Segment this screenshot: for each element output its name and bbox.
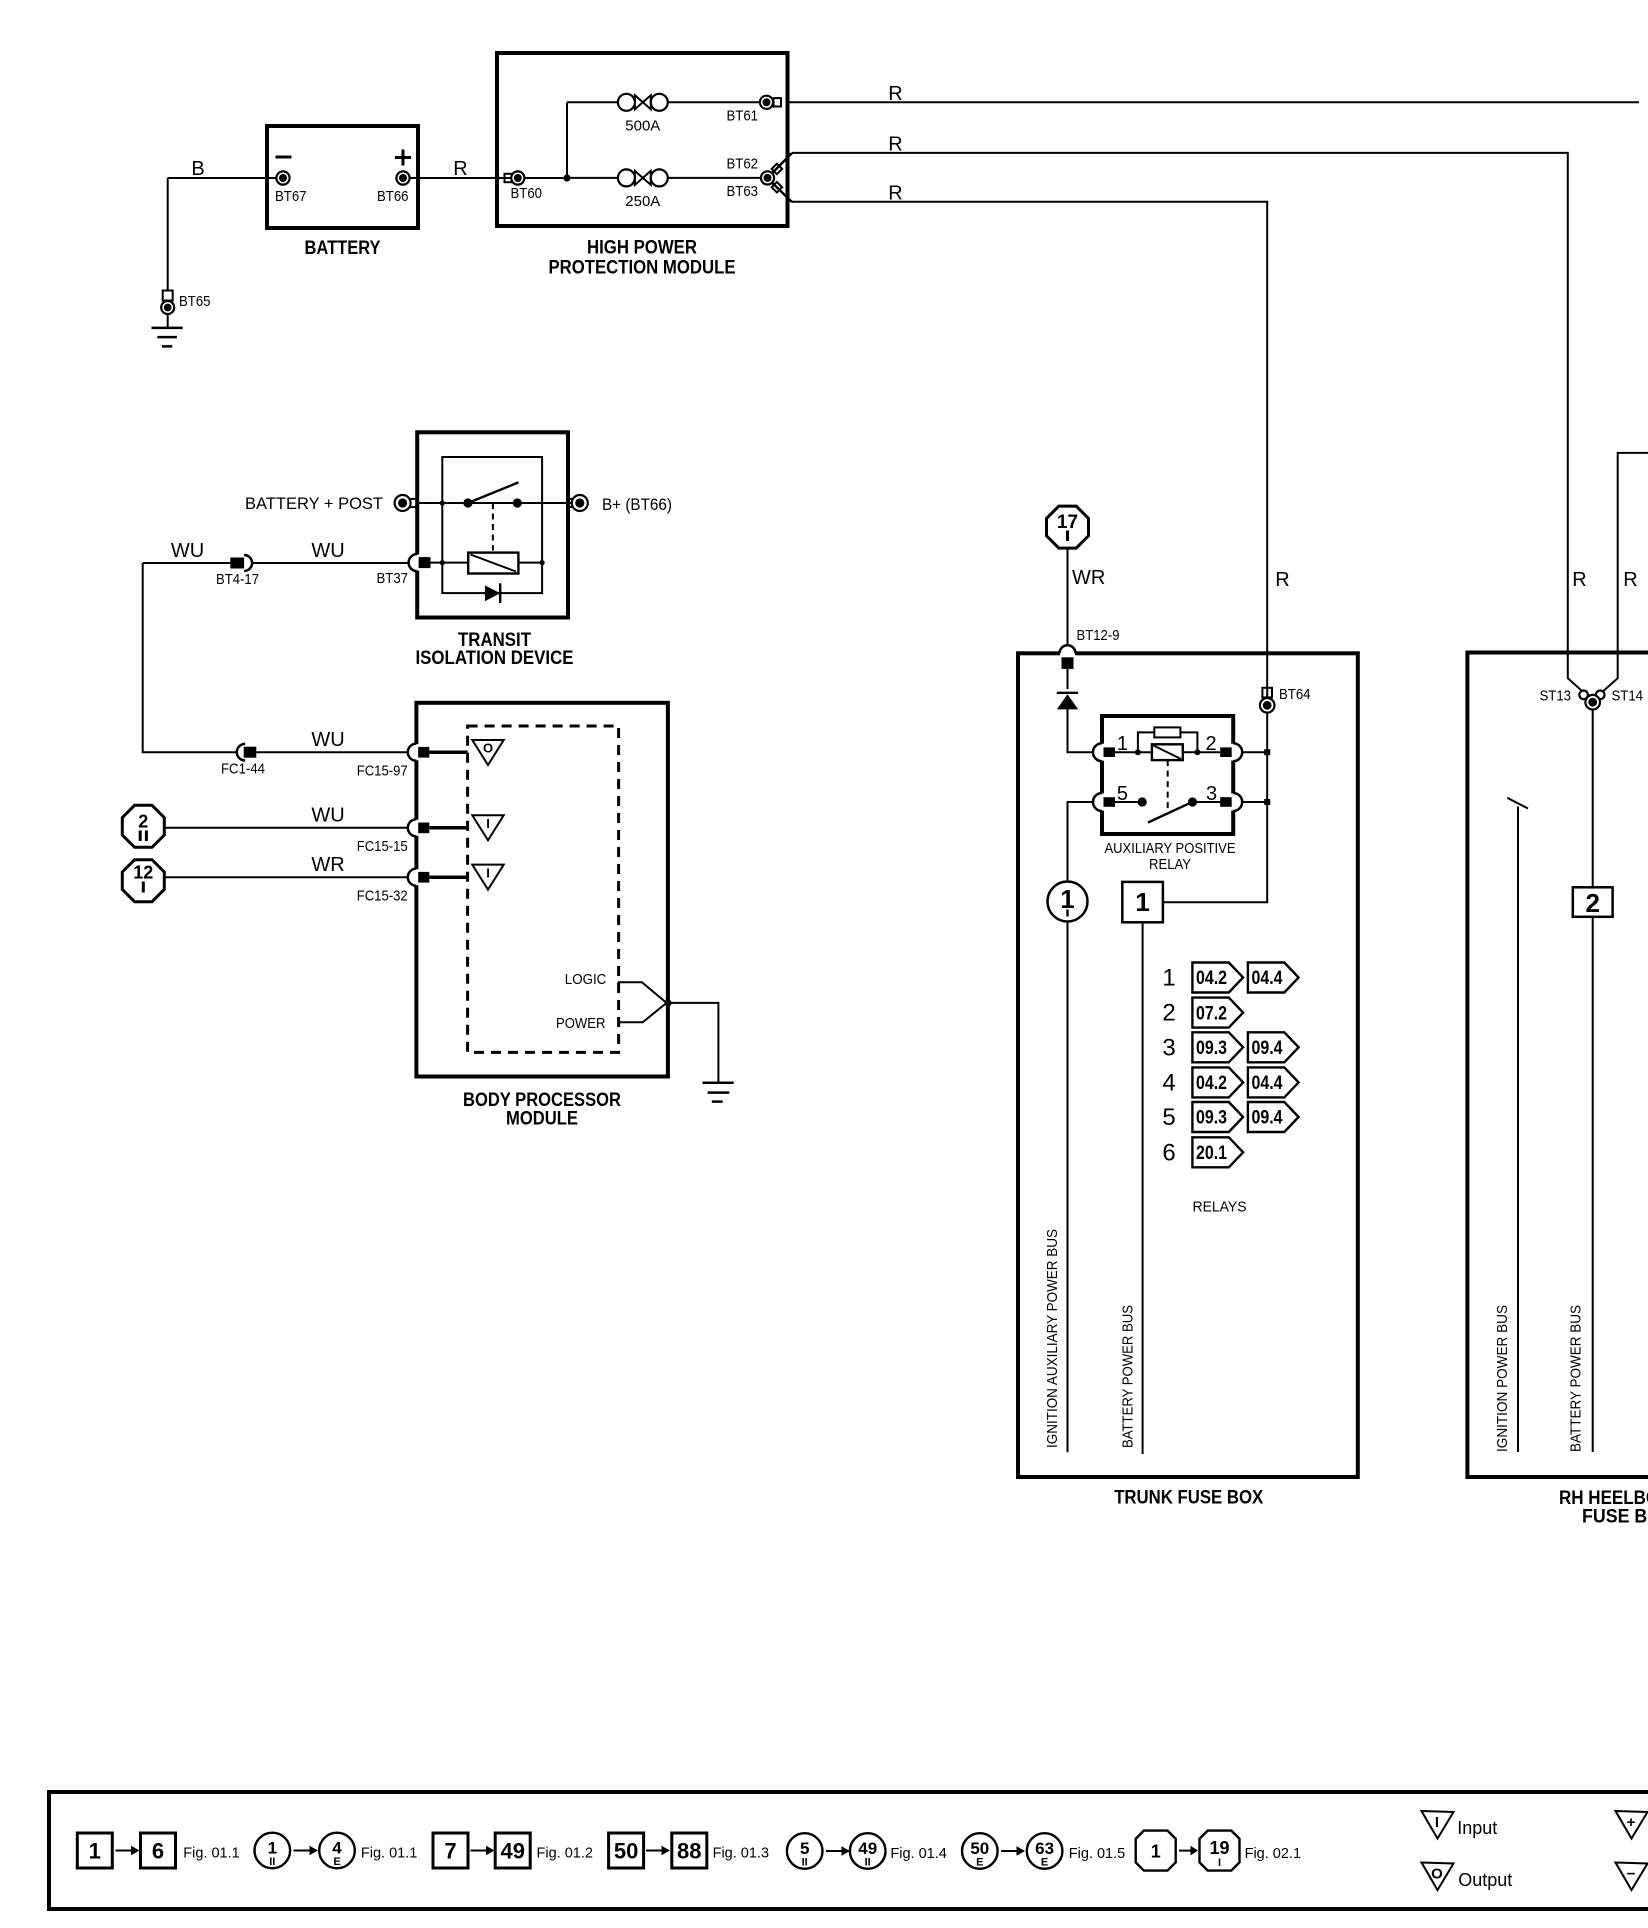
svg-text:R: R: [888, 134, 902, 156]
wire BT63 diagonal: [772, 183, 792, 202]
pin 5: [1093, 783, 1128, 811]
svg-text:WR: WR: [1072, 567, 1105, 589]
terminal BT66: [377, 171, 410, 205]
wire stub to input symbol: [429, 826, 467, 830]
svg-text:3: 3: [1162, 1034, 1175, 1061]
battery plus symbol: [395, 150, 411, 166]
dashed actuator link: [1167, 760, 1169, 810]
diode: [485, 583, 500, 603]
legend square 6: [141, 1833, 176, 1868]
svg-text:20.1: 20.1: [1196, 1143, 1227, 1164]
pin 1: [1093, 733, 1128, 761]
arrow: [646, 1846, 670, 1856]
wire BT60 to junction: [525, 177, 564, 179]
terminal BT60: [505, 171, 543, 202]
label ignition power bus: [1494, 1305, 1511, 1452]
node junction: [1264, 799, 1270, 805]
svg-text:63: 63: [1035, 1839, 1054, 1858]
wire stub to input symbol: [429, 875, 467, 879]
svg-text:BATTERY POWER BUS: BATTERY POWER BUS: [1120, 1305, 1137, 1448]
label Fig. 01.5: [1069, 1846, 1125, 1862]
body processor module box: [416, 703, 668, 1077]
svg-text:250A: 250A: [625, 193, 660, 210]
input symbol I: [472, 865, 503, 890]
svg-text:FC15-32: FC15-32: [357, 888, 408, 905]
svg-text:4: 4: [332, 1839, 342, 1858]
label TRANSIT ISOLATION DEVICE: [416, 630, 574, 669]
svg-text:RELAY: RELAY: [1149, 856, 1191, 873]
switch blade: [468, 482, 519, 503]
legend output symbol: [1422, 1863, 1513, 1891]
terminal battery post left: [395, 495, 418, 511]
svg-text:19: 19: [1209, 1838, 1229, 1858]
svg-text:I: I: [1218, 1857, 1221, 1869]
output symbol O: [472, 740, 503, 765]
svg-text:II: II: [865, 1857, 871, 1869]
legend positive symbol: [1616, 1811, 1648, 1839]
terminal B+ (BT66): [568, 495, 672, 514]
node: [1135, 749, 1141, 755]
svg-text:Fig. 01.2: Fig. 01.2: [537, 1846, 593, 1862]
svg-text:R: R: [453, 158, 467, 180]
wire battery power bus RH: [1592, 917, 1594, 1452]
legend circle 1 II: [254, 1833, 290, 1869]
pin 2: [1205, 733, 1242, 761]
node 12 octagon: [122, 860, 164, 902]
wire WR octagon12 to FC15-32: [164, 876, 407, 878]
svg-text:B+ (BT66): B+ (BT66): [602, 495, 672, 514]
svg-text:04.2: 04.2: [1196, 968, 1227, 989]
svg-text:2: 2: [1162, 1000, 1175, 1027]
svg-text:88: 88: [677, 1839, 701, 1864]
legend circle 63 E: [1027, 1833, 1063, 1869]
wire WR octagon17 down: [1067, 548, 1069, 646]
svg-text:BT67: BT67: [275, 188, 307, 205]
legend box: [49, 1792, 1648, 1909]
switch contacts: [463, 498, 522, 507]
svg-text:R: R: [1572, 569, 1586, 591]
wire diode to relay pin 1: [1068, 709, 1094, 752]
svg-text:ST13: ST13: [1540, 688, 1572, 705]
connector BT12-9: [1060, 627, 1120, 669]
wire WU to BT4-17: [143, 562, 231, 564]
label battery power bus: [1568, 1305, 1585, 1452]
label ignition auxiliary power bus: [1044, 1229, 1061, 1448]
legend square 1: [77, 1833, 112, 1868]
svg-text:1: 1: [1162, 965, 1175, 992]
wire B battery negative: [168, 177, 276, 179]
legend circle 50 E: [962, 1833, 998, 1869]
diode D: [1057, 693, 1078, 710]
svg-text:BT12-9: BT12-9: [1077, 627, 1120, 644]
connector BT37: [377, 554, 431, 587]
high power protection module box: [497, 53, 788, 226]
label AUXILIARY POSITIVE RELAY: [1105, 840, 1236, 873]
svg-text:5: 5: [800, 1839, 809, 1858]
arrow: [826, 1846, 850, 1856]
svg-text:1: 1: [1151, 1842, 1161, 1862]
wire to ground: [167, 178, 169, 291]
wire ignition power bus RH: [1507, 798, 1528, 1452]
svg-text:6: 6: [1162, 1139, 1175, 1166]
connector BT64: [1260, 686, 1311, 713]
svg-text:FC15-97: FC15-97: [357, 763, 408, 780]
switch contact: [1138, 797, 1147, 806]
svg-text:BT63: BT63: [727, 183, 759, 200]
terminal BT62/BT63: [727, 156, 783, 201]
wire logic stub: [618, 982, 667, 1003]
svg-text:LOGIC: LOGIC: [565, 971, 607, 988]
label BODY PROCESSOR MODULE: [463, 1090, 621, 1130]
wire fuse to BT62/BT63: [668, 177, 761, 179]
inner circuit box: [442, 457, 542, 593]
ground symbol: [152, 328, 183, 347]
fig flag 20.1 row6: [1192, 1137, 1243, 1167]
fuse 500A: [618, 94, 668, 135]
wire WU BT4-17 to BT37: [252, 562, 409, 564]
label Fig. 01.3: [713, 1846, 769, 1862]
wire pin1 to coil: [1115, 751, 1152, 753]
wire pin3 to R bus: [1242, 801, 1267, 803]
wire pin5 to circle 1: [1068, 802, 1094, 882]
svg-text:BT65: BT65: [179, 293, 211, 310]
svg-text:7: 7: [444, 1839, 456, 1864]
svg-text:E: E: [333, 1856, 340, 1868]
svg-text:WR: WR: [311, 854, 344, 876]
svg-text:2: 2: [138, 812, 148, 832]
battery minus symbol: [276, 156, 292, 159]
svg-text:49: 49: [500, 1839, 524, 1864]
label BATTERY: [305, 238, 381, 259]
legend circle 5 II: [787, 1833, 823, 1869]
wire R battery to BT60: [410, 177, 511, 179]
label HIGH POWER PROTECTION MODULE: [549, 238, 736, 279]
fig flag 09.4 row3: [1248, 1032, 1299, 1062]
svg-text:500A: 500A: [625, 118, 660, 135]
svg-text:FC1-44: FC1-44: [221, 761, 265, 778]
fig flag 04.2 row4: [1192, 1067, 1243, 1097]
RH heelboard fuse box: [1467, 653, 1648, 1478]
label Fig. 01.2: [537, 1846, 593, 1862]
svg-text:R: R: [888, 83, 902, 105]
svg-text:WU: WU: [311, 729, 344, 751]
svg-text:B: B: [191, 158, 204, 180]
svg-text:PROTECTION MODULE: PROTECTION MODULE: [549, 258, 736, 279]
label WR: [311, 854, 344, 876]
wire stub to output symbol: [429, 750, 467, 754]
label Fig. 01.4: [890, 1846, 946, 1862]
input symbol I: [472, 815, 503, 840]
switch blade: [1148, 803, 1191, 823]
wire junction to fuse 250A: [571, 177, 618, 179]
node 17 octagon: [1047, 506, 1089, 548]
wire R from BT61: [788, 101, 1640, 103]
node circle 1: [1048, 882, 1088, 922]
svg-text:BATTERY: BATTERY: [305, 238, 381, 259]
svg-text:BT37: BT37: [377, 570, 409, 587]
svg-text:Input: Input: [1457, 1818, 1497, 1838]
svg-text:O: O: [1431, 1866, 1443, 1883]
svg-text:BT61: BT61: [727, 108, 759, 125]
svg-text:+: +: [1627, 1814, 1636, 1831]
label R: [1572, 569, 1586, 591]
label WU: [311, 729, 344, 751]
svg-text:Fig. 01.4: Fig. 01.4: [890, 1846, 946, 1862]
connector BT65: [161, 291, 210, 315]
wire BT65 to ground: [167, 314, 169, 328]
legend square 50: [609, 1833, 644, 1868]
svg-text:1: 1: [1135, 887, 1149, 917]
svg-text:BATTERY + POST: BATTERY + POST: [245, 494, 383, 513]
label WU: [311, 540, 344, 562]
svg-text:WU: WU: [311, 540, 344, 562]
connector FC15-97: [357, 744, 430, 780]
wire coil left: [431, 562, 469, 564]
wire WU FC1-44 to FC15-97: [256, 751, 408, 753]
svg-text:12: 12: [133, 863, 153, 883]
wire WU down to FC1-44: [143, 563, 237, 752]
svg-text:4: 4: [1162, 1069, 1175, 1096]
resistor: [1154, 727, 1180, 737]
splice ST13: [1540, 688, 1588, 705]
arrow: [116, 1846, 140, 1856]
svg-text:WU: WU: [171, 540, 204, 562]
svg-text:POWER: POWER: [556, 1015, 606, 1032]
relay coil: [1152, 744, 1183, 760]
wire coil right: [518, 562, 542, 564]
svg-text:Fig. 02.1: Fig. 02.1: [1245, 1846, 1301, 1862]
svg-text:HIGH POWER: HIGH POWER: [587, 238, 697, 259]
terminal BT61: [727, 96, 782, 125]
label Fig. 01.1: [183, 1846, 239, 1862]
fig flag 09.3 row5: [1192, 1102, 1243, 1132]
legend circle 49 II: [850, 1833, 886, 1869]
svg-text:II: II: [269, 1856, 275, 1868]
wire ignition auxiliary power bus: [1067, 922, 1069, 1453]
svg-text:IGNITION AUXILIARY POWER BUS: IGNITION AUXILIARY POWER BUS: [1044, 1229, 1061, 1448]
fig flag 04.2 row1: [1192, 963, 1243, 993]
legend octagon 19 I: [1200, 1831, 1240, 1871]
splice ST14: [1596, 688, 1643, 705]
svg-text:BT60: BT60: [511, 185, 543, 202]
label R: [453, 158, 467, 180]
arrow: [294, 1846, 319, 1856]
fig flag 07.2 row2: [1192, 998, 1243, 1028]
legend negative symbol: [1616, 1863, 1648, 1891]
legend input symbol: [1422, 1811, 1498, 1839]
svg-text:R: R: [1623, 569, 1637, 591]
connector FC15-32: [357, 869, 430, 905]
label R: [1275, 569, 1289, 591]
terminal box 1: [1122, 882, 1163, 922]
auxiliary positive relay box: [1102, 716, 1233, 834]
label Fig. 01.1: [361, 1846, 417, 1862]
terminal box 2: [1573, 887, 1613, 918]
svg-text:Output: Output: [1458, 1870, 1512, 1890]
svg-text:50: 50: [970, 1839, 989, 1858]
svg-text:09.3: 09.3: [1196, 1108, 1227, 1129]
svg-text:R: R: [1275, 569, 1289, 591]
svg-text:ISOLATION DEVICE: ISOLATION DEVICE: [416, 648, 574, 669]
label R: [888, 134, 902, 156]
pin 3: [1206, 783, 1242, 811]
terminal BT67: [275, 171, 307, 205]
svg-text:IGNITION POWER BUS: IGNITION POWER BUS: [1494, 1305, 1511, 1452]
wire to fuse 500A: [567, 101, 618, 103]
fuse 250A: [618, 169, 668, 210]
svg-text:E: E: [1041, 1857, 1048, 1869]
svg-text:BT66: BT66: [377, 188, 409, 205]
connector FC1-44: [221, 744, 265, 778]
svg-text:09.4: 09.4: [1252, 1108, 1283, 1129]
svg-text:1: 1: [89, 1839, 101, 1864]
wire to diode: [1067, 669, 1069, 689]
node ground junction: [664, 999, 671, 1006]
svg-text:Fig. 01.1: Fig. 01.1: [361, 1846, 417, 1862]
label TRUNK FUSE BOX: [1114, 1488, 1263, 1509]
svg-text:6: 6: [152, 1839, 164, 1864]
svg-text:RELAYS: RELAYS: [1193, 1199, 1247, 1216]
label Fig. 02.1: [1245, 1846, 1301, 1862]
arrow: [1001, 1846, 1025, 1856]
svg-text:E: E: [976, 1857, 983, 1869]
svg-text:FC15-15: FC15-15: [357, 838, 408, 855]
battery module box: [267, 126, 418, 228]
label battery power bus: [1120, 1305, 1137, 1448]
node: [1194, 749, 1200, 755]
relay coil: [468, 553, 518, 574]
wire R from BT63 to trunk fuse box: [792, 202, 1267, 903]
arrow: [1179, 1846, 1198, 1856]
svg-text:TRUNK FUSE BOX: TRUNK FUSE BOX: [1114, 1488, 1263, 1509]
wire WU octagon2 to FC15-15: [164, 827, 407, 829]
svg-text:−: −: [1627, 1866, 1636, 1883]
wire switch line: [417, 502, 572, 504]
label R: [1623, 569, 1637, 591]
svg-text:17: 17: [1057, 512, 1078, 533]
wire junction up: [566, 102, 568, 178]
svg-text:04.2: 04.2: [1196, 1073, 1227, 1094]
svg-text:BT64: BT64: [1279, 686, 1311, 703]
label B: [191, 158, 204, 180]
svg-text:09.3: 09.3: [1196, 1038, 1227, 1059]
svg-text:04.4: 04.4: [1252, 968, 1283, 989]
node: [440, 560, 445, 565]
switch contact: [1188, 797, 1197, 806]
wire coil to pin2: [1183, 751, 1220, 753]
svg-text:R: R: [888, 183, 902, 205]
label POWER: [556, 1015, 606, 1032]
svg-text:50: 50: [614, 1839, 638, 1864]
label WR: [1072, 567, 1105, 589]
svg-text:AUXILIARY POSITIVE: AUXILIARY POSITIVE: [1105, 840, 1236, 857]
svg-text:Fig. 01.5: Fig. 01.5: [1069, 1846, 1125, 1862]
wire to ground: [668, 1003, 718, 1083]
dashed logic box: [468, 726, 619, 1052]
label RELAYS: [1193, 1199, 1247, 1216]
fig flag 04.4 row1: [1248, 963, 1299, 993]
svg-text:07.2: 07.2: [1196, 1003, 1227, 1024]
ground symbol: [702, 1083, 733, 1102]
label BATTERY + POST: [245, 494, 383, 513]
svg-text:5: 5: [1162, 1104, 1175, 1131]
wire splice to box 2: [1592, 710, 1594, 888]
wire pin5 to contact: [1115, 801, 1142, 803]
svg-text:Fig. 01.1: Fig. 01.1: [183, 1846, 239, 1862]
transit isolation device box: [417, 432, 568, 617]
svg-text:09.4: 09.4: [1252, 1038, 1283, 1059]
wire battery power bus: [1142, 922, 1144, 1454]
node splice junction: [1585, 695, 1600, 710]
wire R from BT62 to RH heelboard ST13: [792, 153, 1589, 698]
legend square 7: [433, 1833, 468, 1868]
label R: [888, 183, 902, 205]
wire pin3 to contact: [1193, 801, 1221, 803]
svg-text:I: I: [486, 816, 490, 831]
svg-text:BT4-17: BT4-17: [216, 571, 259, 588]
svg-text:BT62: BT62: [727, 156, 759, 173]
legend square 88: [672, 1833, 707, 1868]
label WU: [311, 805, 344, 827]
node 2 octagon: [122, 805, 164, 847]
node junction: [563, 174, 570, 181]
svg-text:I: I: [486, 865, 490, 880]
svg-text:ST14: ST14: [1612, 688, 1644, 705]
label RH HEELBOARD FUSE BOX: [1559, 1488, 1648, 1528]
legend circle 4 E: [319, 1833, 355, 1869]
wire fuse to BT61: [668, 101, 760, 103]
legend square 49: [495, 1833, 530, 1868]
label LOGIC: [565, 971, 607, 988]
svg-text:BATTERY POWER BUS: BATTERY POWER BUS: [1568, 1305, 1585, 1452]
connector FC15-15: [357, 819, 430, 855]
svg-text:2: 2: [1585, 888, 1599, 918]
svg-text:Fig. 01.3: Fig. 01.3: [713, 1846, 769, 1862]
arrow: [471, 1846, 495, 1856]
svg-text:WU: WU: [311, 805, 344, 827]
resistor bracket wires: [1138, 732, 1198, 752]
node: [440, 500, 445, 505]
fig flag 09.3 row3: [1192, 1032, 1243, 1062]
fig flag 09.4 row5: [1248, 1102, 1299, 1132]
label WU: [171, 540, 204, 562]
svg-text:FUSE BOX: FUSE BOX: [1582, 1507, 1648, 1528]
connector BT4-17: [216, 555, 259, 588]
fig flag 04.4 row4: [1248, 1067, 1299, 1097]
svg-text:O: O: [483, 741, 493, 756]
wire power stub: [618, 1003, 667, 1022]
svg-text:04.4: 04.4: [1252, 1073, 1283, 1094]
wire pin2 to R bus: [1242, 751, 1267, 753]
dashed actuator link: [492, 503, 494, 551]
svg-text:II: II: [802, 1857, 808, 1869]
svg-text:1: 1: [268, 1839, 277, 1858]
wire BT62 diagonal: [772, 153, 792, 173]
trunk fuse box: [1018, 653, 1358, 1477]
node: [540, 560, 545, 565]
wire R branch to RH heelboard ST14: [1596, 453, 1648, 698]
legend octagon 1: [1136, 1831, 1176, 1871]
node junction: [1264, 749, 1270, 755]
label R: [888, 83, 902, 105]
svg-text:I: I: [1435, 1814, 1439, 1831]
svg-text:49: 49: [858, 1839, 877, 1858]
svg-text:MODULE: MODULE: [506, 1109, 578, 1130]
relay list numbers: [1162, 965, 1175, 1167]
